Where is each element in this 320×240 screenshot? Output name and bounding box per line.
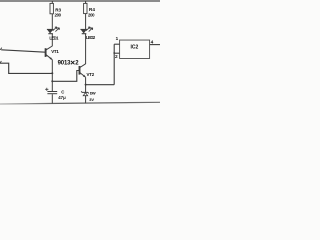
wire VT2 emitter down	[85, 77, 87, 92]
wire pin 2	[114, 52, 119, 54]
zener diode DW	[81, 91, 89, 95]
bottom ground rail	[0, 102, 160, 104]
wire base of VT1 from left edge	[1, 50, 45, 52]
node left base stub	[0, 48, 2, 50]
svg-text:LED1: LED1	[49, 35, 59, 40]
wire capacitor to ground rail	[51, 94, 53, 103]
svg-text:200: 200	[55, 12, 62, 17]
resistor R3	[50, 3, 53, 13]
transistor VT1	[46, 46, 53, 60]
wire VT1 emitter down	[51, 60, 53, 92]
node left step stub	[0, 61, 1, 63]
svg-text:9013: 9013	[58, 61, 72, 67]
svg-text:LED2: LED2	[86, 35, 96, 40]
wire LED1 to VT1 collector	[51, 34, 53, 46]
node emitter junction B	[51, 80, 53, 82]
op-amp IC2 box	[120, 40, 150, 58]
LED2	[80, 27, 92, 34]
node zener junction	[85, 84, 87, 86]
wire left step from edge	[0, 63, 52, 73]
top supply rail	[0, 0, 160, 2]
svg-text:47μ: 47μ	[58, 95, 66, 100]
wire R4 to LED2	[85, 14, 87, 30]
svg-text:2: 2	[115, 54, 118, 60]
capacitor C	[45, 88, 57, 94]
wire rail to R4	[85, 1, 87, 4]
wire emitter to VT2 base	[52, 71, 79, 82]
transistor VT2	[80, 64, 86, 78]
resistor R4	[84, 3, 87, 13]
svg-text:4: 4	[151, 40, 154, 46]
svg-text:R4: R4	[89, 7, 95, 12]
wire IC2 net vertical	[86, 44, 115, 84]
svg-text:VT1: VT1	[51, 49, 59, 54]
node pin2 tee	[113, 52, 115, 54]
wire R3 to LED1	[51, 14, 53, 30]
svg-text:IC2: IC2	[131, 45, 139, 51]
wire zener to ground rail	[85, 96, 87, 103]
node emitter junction A	[51, 72, 53, 74]
LED1	[47, 27, 60, 34]
wire pin 1	[114, 43, 119, 45]
svg-text:200: 200	[88, 12, 95, 17]
wire pin 4	[150, 44, 160, 46]
wire rail to R3	[51, 1, 53, 4]
svg-text:3V: 3V	[89, 97, 94, 102]
wire LED2 to VT2 collector	[85, 34, 87, 64]
svg-text:DW: DW	[90, 92, 96, 96]
svg-text:C: C	[61, 89, 64, 94]
svg-text:1: 1	[116, 36, 119, 41]
svg-text:VT2: VT2	[87, 72, 95, 77]
